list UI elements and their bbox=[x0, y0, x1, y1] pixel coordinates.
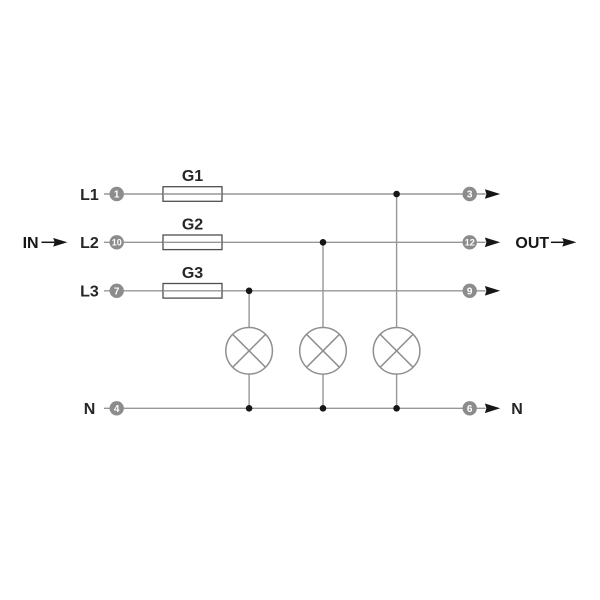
arrow out N bbox=[485, 404, 500, 414]
node junction N/lamp3 bbox=[393, 405, 400, 412]
svg-text:12: 12 bbox=[465, 238, 475, 248]
svg-text:L1: L1 bbox=[80, 187, 99, 204]
terminal 6 bbox=[463, 401, 477, 415]
wire L1 horizontal bbox=[104, 193, 486, 195]
node junction L1/lamp3 bbox=[393, 191, 400, 198]
node junction L3/lamp1 bbox=[246, 288, 253, 295]
wire lamp2 vertical bottom bbox=[322, 374, 324, 408]
terminal 10 bbox=[110, 235, 124, 249]
terminal 4 bbox=[110, 401, 124, 415]
terminal 1 bbox=[110, 187, 124, 201]
svg-text:3: 3 bbox=[467, 190, 473, 201]
svg-text:G2: G2 bbox=[182, 216, 203, 233]
lamp E3 bbox=[373, 328, 420, 375]
svg-text:L3: L3 bbox=[80, 284, 99, 301]
svg-text:6: 6 bbox=[467, 404, 473, 415]
terminal 7 bbox=[110, 284, 124, 298]
svg-text:9: 9 bbox=[467, 286, 473, 297]
wire L2 horizontal bbox=[104, 241, 486, 243]
wire lamp2 vertical top bbox=[322, 242, 324, 327]
label OUT with arrow bbox=[515, 235, 576, 252]
svg-text:OUT: OUT bbox=[515, 235, 549, 252]
wire lamp3 vertical top bbox=[396, 194, 398, 328]
svg-text:N: N bbox=[84, 401, 96, 418]
terminal 12 bbox=[463, 235, 477, 249]
svg-text:G1: G1 bbox=[182, 168, 203, 185]
wire N horizontal bbox=[104, 407, 486, 409]
svg-text:G3: G3 bbox=[182, 265, 203, 282]
arrow out L3 bbox=[485, 286, 500, 296]
node junction N/lamp1 bbox=[246, 405, 253, 412]
svg-text:IN: IN bbox=[23, 235, 39, 252]
wire lamp1 vertical bottom bbox=[248, 374, 250, 408]
svg-text:4: 4 bbox=[114, 404, 120, 415]
arrow out L2 bbox=[485, 238, 500, 248]
fuse G3 bbox=[163, 265, 222, 298]
svg-text:1: 1 bbox=[114, 190, 120, 201]
terminal 3 bbox=[463, 187, 477, 201]
fuse G1 bbox=[163, 168, 222, 202]
fuse G2 bbox=[163, 216, 222, 249]
wire lamp1 vertical top bbox=[248, 291, 250, 328]
node junction N/lamp2 bbox=[320, 405, 327, 412]
node junction L2/lamp2 bbox=[320, 239, 327, 246]
label IN with arrow bbox=[23, 235, 68, 252]
svg-text:7: 7 bbox=[114, 286, 120, 297]
wire L3 horizontal bbox=[104, 290, 486, 292]
lamp E1 bbox=[226, 328, 273, 375]
svg-text:L2: L2 bbox=[80, 235, 99, 252]
lamp E2 bbox=[300, 328, 347, 375]
terminal 9 bbox=[463, 284, 477, 298]
svg-text:N: N bbox=[511, 401, 523, 418]
wire lamp3 vertical bottom bbox=[396, 374, 398, 408]
svg-text:10: 10 bbox=[112, 238, 122, 248]
arrow out L1 bbox=[485, 189, 500, 199]
